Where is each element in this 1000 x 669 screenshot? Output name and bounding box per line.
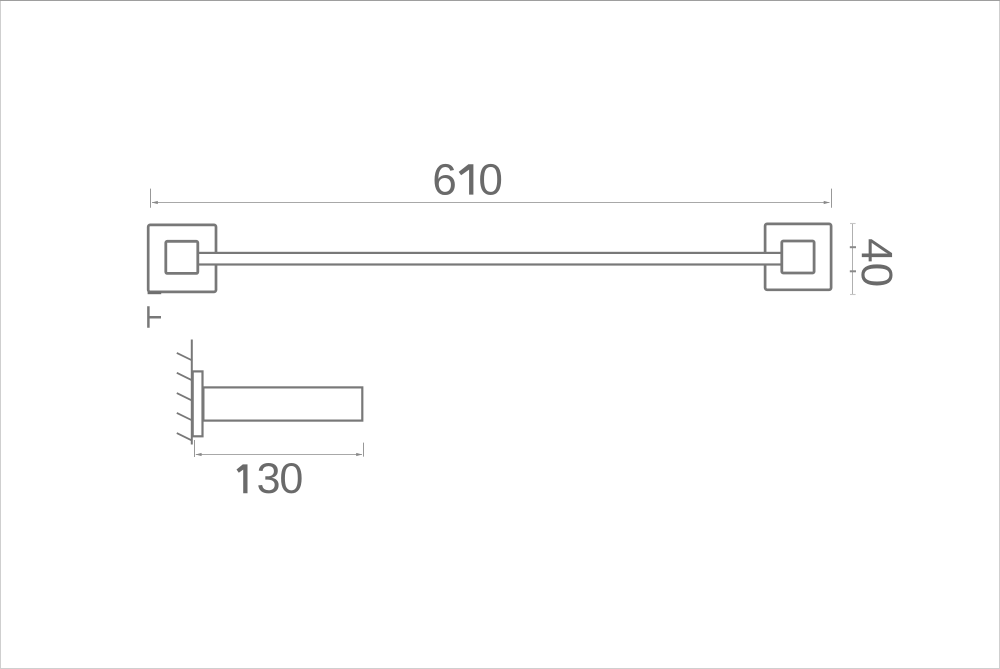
dimension 130 value label [237,463,302,493]
section mark at left bracket bottom corner [148,292,162,295]
dimension 610 right extension line [831,189,833,208]
towel bar rail [197,253,782,265]
dimension 610 right arrowhead [824,201,830,204]
side view arm [203,387,362,420]
dimension 130 right arrowhead [356,453,362,456]
right bracket inner square [782,241,814,273]
dimension 40 top end tick [850,223,856,225]
dimension 130 left extension line [194,440,196,457]
left bracket inner square [166,241,198,273]
side view wall hatch 2 [177,373,193,381]
side view wall hatch 5 [177,433,193,441]
dimension 40 lower arrow tick [850,270,856,272]
side view wall line [191,340,193,445]
dimension 40 upper arrow tick [850,246,856,248]
dimension 130 left arrowhead [196,453,202,456]
dimension 130 right extension line [363,443,365,457]
dimension 610 left arrowhead [152,201,158,204]
dimension 40 bottom end tick [850,294,856,296]
dimension 610 dimension line [152,202,830,204]
side view wall plate [193,371,203,436]
dimension 40 value label (rotated) [861,239,892,285]
dimension 40 extension line [852,224,854,295]
dimension 130 dimension line [196,454,362,456]
right bracket outer square [765,224,831,290]
left bracket outer square [148,225,216,292]
dimension 610 left extension line [150,189,152,208]
wall reference marker [148,306,161,328]
side view wall hatch 4 [177,413,193,421]
side view wall hatch 1 [177,353,193,361]
side view wall hatch 3 [177,393,193,401]
dimension 610 value label [435,164,502,195]
